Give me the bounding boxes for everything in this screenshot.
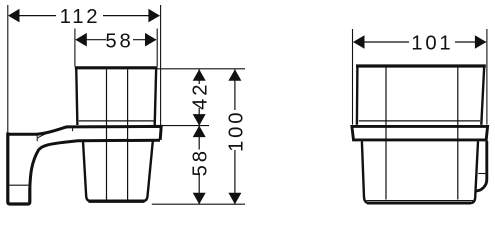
left view: arm inner thin edge bbox=[38, 127, 69, 138]
svg-text:100: 100 bbox=[225, 110, 247, 152]
extension line left of 112 dim bbox=[7, 5, 9, 134]
arrowhead right 112 bbox=[148, 9, 160, 23]
left view: cup right side upper bbox=[155, 67, 157, 126]
left view: band bottom edge with arm under arc bbox=[30, 140, 160, 189]
arrowhead right 101 bbox=[475, 35, 487, 49]
right view: bracket hook joint thin line bbox=[478, 173, 485, 175]
right view: cup bottom inner thin line bbox=[367, 200, 474, 202]
left view: cup left side lower bbox=[83, 141, 91, 201]
left view: wall plate step thin line bbox=[9, 184, 28, 186]
left view: cup inner wall line 2 bbox=[127, 70, 129, 201]
arrowhead down 42 bbox=[193, 114, 206, 126]
right view: holder band bbox=[352, 126, 488, 139]
right view: holder rim thin line above band bbox=[359, 120, 480, 122]
left view: cup right side lower bbox=[143, 141, 153, 201]
left view: holder rim thin line above band bbox=[79, 120, 154, 122]
left view: cup inner wall line 1 bbox=[106, 70, 108, 201]
dimension line 42 (vertical) bbox=[198, 70, 200, 126]
arrowhead down 58v bbox=[193, 193, 206, 205]
arrowhead right 58 bbox=[145, 33, 157, 47]
right view: cup inner wall line 2 bbox=[457, 68, 459, 200]
right view: cup top edge bbox=[356, 64, 486, 67]
left view: band top edge with arm top curve bbox=[8, 126, 161, 139]
left view: band-arm joint thin line bbox=[72, 128, 74, 132]
right view: cup left side lower bbox=[362, 141, 369, 203]
svg-text:101: 101 bbox=[411, 33, 453, 55]
dimension line 58 bbox=[76, 39, 156, 41]
extension line horizontal at holder top bbox=[162, 125, 209, 127]
right view: extension line right of 101 bbox=[486, 29, 488, 125]
right view: cup inner wall line 1 bbox=[385, 68, 387, 200]
left view: plate-arm joint thin line bbox=[36, 135, 38, 141]
right view: cup right side upper bbox=[481, 67, 484, 125]
dimension line 58 vertical bbox=[198, 126, 200, 204]
left view: tumbler cup top edge bbox=[75, 66, 158, 69]
extension line horizontal at bottom bbox=[152, 203, 245, 205]
left view: wall plate outline bbox=[8, 133, 30, 205]
arrowhead down 100 bbox=[228, 193, 241, 205]
dimension line 101 bbox=[354, 41, 486, 43]
extension line left of 58 dim bbox=[74, 29, 76, 67]
extension line horizontal at cup top bbox=[158, 68, 246, 70]
arrowhead left 58 bbox=[75, 33, 87, 47]
arrowhead up 100 bbox=[228, 69, 241, 81]
right view: extension line left of 101 bbox=[352, 29, 354, 125]
arrowhead up 58v bbox=[193, 126, 206, 138]
svg-text:112: 112 bbox=[60, 6, 101, 28]
arrowhead left 112 bbox=[8, 9, 20, 23]
dimension line 112 bbox=[9, 15, 160, 17]
extension line right of 58 dim bbox=[156, 29, 158, 67]
svg-text:58: 58 bbox=[190, 148, 212, 176]
right view: cup left side upper bbox=[356, 67, 359, 125]
svg-text:42: 42 bbox=[190, 82, 212, 110]
right view: cup bottom bbox=[367, 202, 471, 205]
dimension line 100 (vertical) bbox=[234, 70, 236, 205]
right view: cup right side lower bbox=[470, 141, 478, 203]
arrowhead left 101 bbox=[353, 35, 365, 49]
left view: cup bottom bbox=[89, 199, 145, 202]
right view: bracket hook outer edge bbox=[475, 141, 487, 191]
left view: cup left side upper bbox=[76, 67, 77, 125]
extension line right of 112 dim bbox=[160, 5, 162, 125]
arrowhead up 42 bbox=[193, 69, 206, 81]
svg-text:58: 58 bbox=[105, 31, 133, 53]
